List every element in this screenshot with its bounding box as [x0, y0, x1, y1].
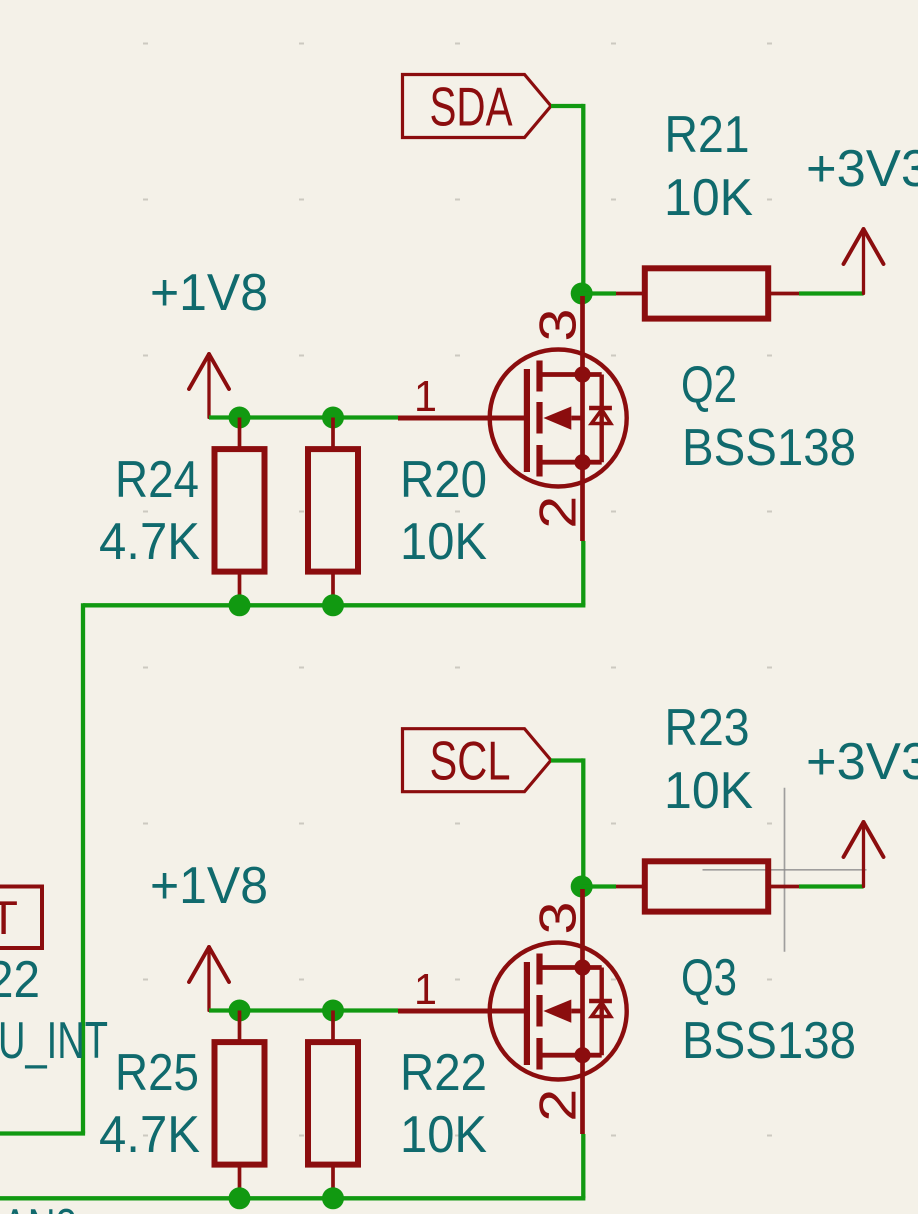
junction rail left — [229, 594, 251, 616]
svg-text:R20: R20 — [400, 451, 487, 509]
svg-text:AN8: AN8 — [2, 1199, 77, 1214]
wire vertical to junction — [581, 758, 585, 886]
drain-source vertical (pin 3 / substrate / pin 2) — [580, 296, 585, 541]
drain connection — [540, 965, 602, 970]
channel segment drain — [536, 361, 542, 392]
svg-text:2: 2 — [530, 1089, 588, 1122]
junction rail left — [229, 1187, 251, 1209]
body diode cathode bar — [589, 406, 612, 410]
svg-text:R23: R23 — [665, 699, 750, 757]
net label SDA (flag) — [403, 75, 552, 138]
wire SCL flag to drain net — [551, 758, 583, 762]
svg-text:10K: 10K — [664, 762, 753, 820]
power symbol +3V3 — [844, 822, 884, 887]
substrate arrow — [543, 407, 571, 430]
svg-text:4.7K: 4.7K — [99, 1106, 200, 1164]
pin 1 of R23 — [616, 885, 646, 889]
svg-text:3: 3 — [530, 309, 588, 342]
power symbol +1V8 — [189, 947, 229, 1011]
svg-text:10K: 10K — [664, 169, 753, 227]
body circle of Q2 — [490, 350, 627, 487]
pin 1 of R20 — [331, 418, 335, 450]
wire resistor to +3V3 — [799, 884, 864, 888]
substrate link — [571, 416, 582, 421]
wire SDA flag to drain net — [551, 104, 583, 108]
net label SCL (flag) — [403, 729, 552, 792]
transistor Q3 BSS138 N-MOSFET — [398, 889, 856, 1134]
wire vertical to junction — [581, 104, 585, 294]
wire low-voltage rail — [83, 603, 585, 607]
svg-text:10K: 10K — [400, 1106, 487, 1164]
body diode cathode bar — [589, 999, 612, 1003]
pin 1 of R21 — [616, 292, 646, 296]
body circle of Q3 — [490, 943, 627, 1080]
resistor R22 (10K) vertical — [308, 1011, 487, 1199]
svg-text:R21: R21 — [665, 106, 750, 164]
transistor Q2 BSS138 N-MOSFET — [398, 296, 856, 541]
svg-text:SCL: SCL — [430, 730, 511, 792]
wire left riser vertical — [81, 603, 85, 1133]
body diode triangle — [592, 1003, 611, 1017]
resistor R24 (4.7K) vertical — [99, 418, 265, 606]
drain node dot — [574, 366, 590, 382]
substrate arrow — [543, 1000, 571, 1023]
power symbol +3V3 — [844, 229, 884, 294]
gate lead (pin 1) — [398, 416, 527, 421]
source node dot — [574, 1047, 590, 1063]
pin 2 of R23 — [767, 885, 799, 889]
drain connection — [540, 372, 602, 377]
svg-text:+1V8: +1V8 — [150, 857, 268, 915]
source connection — [540, 460, 602, 465]
resistor R21 (10K) horizontal — [616, 106, 799, 319]
svg-text:+3V3: +3V3 — [806, 733, 918, 791]
svg-text:BSS138: BSS138 — [682, 419, 856, 477]
partial component at left edge (pin box "T") — [0, 887, 42, 949]
resistor R23 (10K) horizontal — [616, 699, 799, 912]
gate lead (pin 1) — [398, 1009, 527, 1014]
junction rail right — [322, 594, 344, 616]
resistor R25 (4.7K) vertical — [99, 1011, 265, 1199]
junction R pull-up left — [229, 1000, 251, 1022]
svg-text:BSS138: BSS138 — [682, 1012, 856, 1070]
svg-text:R22: R22 — [400, 1044, 487, 1102]
svg-text:+1V8: +1V8 — [150, 264, 268, 322]
svg-text:R25: R25 — [115, 1044, 199, 1102]
svg-text:22: 22 — [0, 951, 40, 1009]
junction rail right — [322, 1187, 344, 1209]
svg-text:SDA: SDA — [430, 76, 513, 138]
cursor crosshair — [703, 788, 867, 952]
wire Q2 source to rail — [581, 541, 585, 605]
svg-text:2: 2 — [530, 496, 588, 529]
channel segment source — [536, 1038, 542, 1070]
svg-text:1: 1 — [414, 372, 437, 421]
wire low-voltage rail — [0, 1196, 585, 1200]
channel segment drain — [536, 954, 542, 985]
pin 2 of R22 — [331, 1165, 335, 1199]
pin 1 of R25 — [238, 1011, 242, 1043]
body diode branch — [600, 375, 604, 463]
body of R21 — [645, 268, 768, 318]
svg-text:Q3: Q3 — [681, 949, 737, 1007]
svg-text:R24: R24 — [115, 451, 199, 509]
junction node SCL / Q3 drain — [571, 876, 593, 898]
junction R pull-up left — [229, 407, 251, 429]
svg-text:U_INT: U_INT — [0, 1012, 108, 1070]
svg-text:INT: INT — [0, 891, 18, 944]
channel segment middle — [536, 402, 542, 434]
wire +1V8 to gate — [209, 415, 398, 419]
body of R25 — [215, 1042, 265, 1165]
pin 1 of R24 — [238, 418, 242, 450]
body diode triangle — [592, 410, 611, 424]
pin 1 of R22 — [331, 1011, 335, 1043]
junction R pull-up right — [322, 407, 344, 429]
junction R pull-up right — [322, 1000, 344, 1022]
power symbol +1V8 — [189, 354, 229, 418]
svg-text:1: 1 — [414, 965, 437, 1014]
body diode branch — [600, 968, 604, 1056]
wire left riser horizontal — [0, 1131, 85, 1135]
svg-text:Q2: Q2 — [681, 356, 737, 414]
body of R22 — [308, 1042, 358, 1165]
body of R20 — [308, 449, 358, 571]
gate bar — [524, 369, 530, 472]
body of R23 — [645, 861, 768, 911]
svg-text:10K: 10K — [400, 513, 487, 571]
drain-source vertical (pin 3 / substrate / pin 2) — [580, 889, 585, 1134]
wire junction to resistor — [582, 291, 616, 295]
svg-text:3: 3 — [530, 902, 588, 935]
wire junction to resistor — [582, 884, 616, 888]
svg-text:+3V3: +3V3 — [806, 140, 918, 198]
wire resistor to +3V3 — [799, 291, 864, 295]
body of R24 — [215, 449, 265, 571]
pin 2 of R21 — [767, 292, 799, 296]
pin 2 of R24 — [238, 572, 242, 606]
drain node dot — [574, 959, 590, 975]
svg-text:4.7K: 4.7K — [99, 513, 200, 571]
wire +1V8 to gate — [209, 1008, 398, 1012]
pin 2 of R25 — [238, 1165, 242, 1199]
substrate link — [571, 1009, 582, 1014]
source connection — [540, 1053, 602, 1058]
channel segment source — [536, 445, 542, 477]
channel segment middle — [536, 995, 542, 1027]
wire Q3 source to rail — [581, 1134, 585, 1198]
gate bar — [524, 962, 530, 1065]
resistor R20 (10K) vertical — [308, 418, 487, 606]
junction node SDA / Q2 drain — [571, 283, 593, 305]
pin 2 of R20 — [331, 572, 335, 606]
source node dot — [574, 454, 590, 470]
